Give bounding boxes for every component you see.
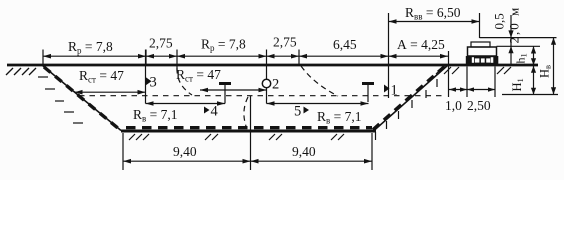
truck wheel clearance dimension: extension lines <box>466 67 468 98</box>
extension line x=177 <box>176 50 178 71</box>
extension / position-1 axis line x=388.5 <box>388 13 390 98</box>
svg-text:1,0: 1,0 <box>445 98 462 113</box>
svg-text:6,45: 6,45 <box>333 37 357 52</box>
svg-text:2,0 м: 2,0 м <box>507 6 522 44</box>
bottom width dimension line <box>123 160 372 162</box>
truck clearance dimension line <box>449 89 495 91</box>
extension line x=448 <box>448 51 450 97</box>
svg-text:Rр = 7,8: Rр = 7,8 <box>201 37 246 54</box>
dashed first-pass slope at x=299 <box>301 66 338 96</box>
truck top level line B <box>497 45 541 47</box>
Rst dimension line no.2 <box>200 89 267 91</box>
ground hatching left of pit <box>6 68 36 75</box>
svg-text:9,40: 9,40 <box>173 144 197 159</box>
marker flag 1 <box>384 83 398 99</box>
right slope of excavation <box>374 66 448 131</box>
pit bottom dashed design contour <box>126 126 372 129</box>
svg-text:А = 4,25: А = 4,25 <box>397 37 445 52</box>
peg symbol near position 1 <box>362 82 374 102</box>
extension line x=299 <box>298 50 300 67</box>
dashed mid second-pass cut <box>244 97 248 126</box>
truck undercarriage and wheels <box>466 56 499 65</box>
svg-text:Rр = 7,8: Rр = 7,8 <box>68 39 113 56</box>
unloading height dimension line x=553.5 <box>553 38 555 95</box>
svg-text:2,75: 2,75 <box>273 35 297 50</box>
svg-text:3: 3 <box>150 75 157 91</box>
marker flag 3 <box>146 75 157 91</box>
svg-text:Н1: Н1 <box>510 78 525 91</box>
marker flag 5 <box>294 104 309 120</box>
truck body top <box>471 42 490 47</box>
clearance dimension line x=511 <box>510 15 512 64</box>
Rst dimension line no.1 <box>75 91 146 93</box>
left slope dashed design contour <box>44 67 122 132</box>
svg-text:Rвв = 6,50: Rвв = 6,50 <box>405 5 461 22</box>
ground surface line <box>7 64 538 67</box>
svg-text:Rв = 7,1: Rв = 7,1 <box>133 107 178 124</box>
svg-text:2,75: 2,75 <box>149 36 173 51</box>
extension line x=146 <box>145 50 147 65</box>
svg-text:h1: h1 <box>514 53 529 63</box>
right slope soil hatching ticks <box>376 79 438 140</box>
svg-text:4: 4 <box>211 104 219 120</box>
truck body <box>468 47 497 56</box>
svg-text:2: 2 <box>272 77 279 93</box>
first-pass bottom level line C <box>502 94 558 96</box>
extension line x=43 <box>42 50 44 66</box>
unloading level line A <box>480 37 557 39</box>
svg-text:Нв: Нв <box>538 65 553 78</box>
Rvv dimension line <box>389 21 480 23</box>
svg-text:Rст = 47: Rст = 47 <box>176 67 221 84</box>
svg-text:Rст = 47: Rст = 47 <box>79 68 124 85</box>
peg symbol near position 4 <box>219 82 231 104</box>
left slope soil hatching ticks <box>38 77 83 123</box>
dashed first-pass level line <box>79 95 446 97</box>
svg-text:Rв = 7,1: Rв = 7,1 <box>317 109 362 126</box>
marker circle 2 <box>262 77 279 93</box>
axis / position line x=145.5 <box>145 50 147 104</box>
svg-text:9,40: 9,40 <box>292 144 316 159</box>
svg-text:0,5: 0,5 <box>492 13 507 29</box>
ground hatching right of pit <box>436 67 511 74</box>
Rv dimension line no.2 <box>267 103 369 105</box>
svg-text:2,50: 2,50 <box>467 98 491 113</box>
pit bottom line <box>121 130 376 133</box>
svg-text:1: 1 <box>391 83 398 99</box>
marker flag 4 <box>204 104 219 120</box>
svg-text:5: 5 <box>294 104 301 120</box>
Rv dimension line no.1 <box>146 103 226 105</box>
extension line x=479.5 for Rvv <box>479 13 481 38</box>
truck height dimension line x=533 <box>533 46 535 94</box>
arrowheads on surface dimension line <box>43 54 448 59</box>
bottom width dimension: extension lines <box>122 133 124 170</box>
extension / position-2 axis line x=266.5 <box>266 50 268 104</box>
dashed first-pass slope at x=177 <box>177 68 192 95</box>
pit bottom soil hatch groups <box>129 134 344 140</box>
left slope of excavation <box>43 66 121 131</box>
right slope dashed design contour <box>373 65 447 130</box>
main dimension line along surface <box>43 55 448 57</box>
